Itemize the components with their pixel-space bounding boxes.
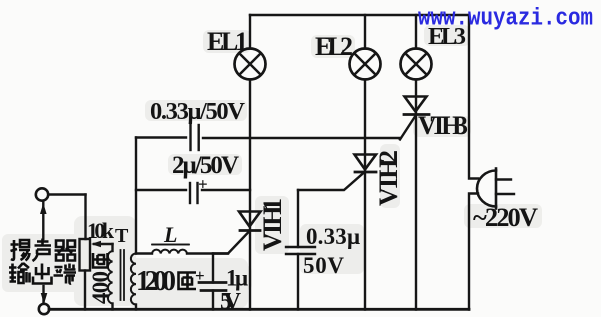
svg-text:0.33μ: 0.33μ xyxy=(306,224,360,249)
svg-text:VTH1: VTH1 xyxy=(258,198,287,251)
svg-text:L: L xyxy=(163,222,177,247)
svg-text:www.wuyazi.com: www.wuyazi.com xyxy=(418,6,593,33)
svg-text:EL2: EL2 xyxy=(315,32,353,61)
svg-text:0.33μ/50V: 0.33μ/50V xyxy=(150,98,245,125)
svg-text:1200: 1200 xyxy=(136,266,176,297)
svg-text:1μ: 1μ xyxy=(226,266,248,291)
svg-text:5V: 5V xyxy=(220,289,242,315)
svg-text:VTH3: VTH3 xyxy=(418,111,468,140)
svg-text:400: 400 xyxy=(88,271,113,304)
svg-text:T: T xyxy=(115,225,129,247)
svg-text:50V: 50V xyxy=(303,253,344,278)
svg-text:+: + xyxy=(198,175,208,194)
svg-text:VTH2: VTH2 xyxy=(374,150,403,206)
svg-text:+: + xyxy=(195,266,205,285)
svg-text:10k: 10k xyxy=(87,218,115,243)
svg-text:EL1: EL1 xyxy=(207,27,248,56)
svg-text:~220V: ~220V xyxy=(473,202,538,232)
